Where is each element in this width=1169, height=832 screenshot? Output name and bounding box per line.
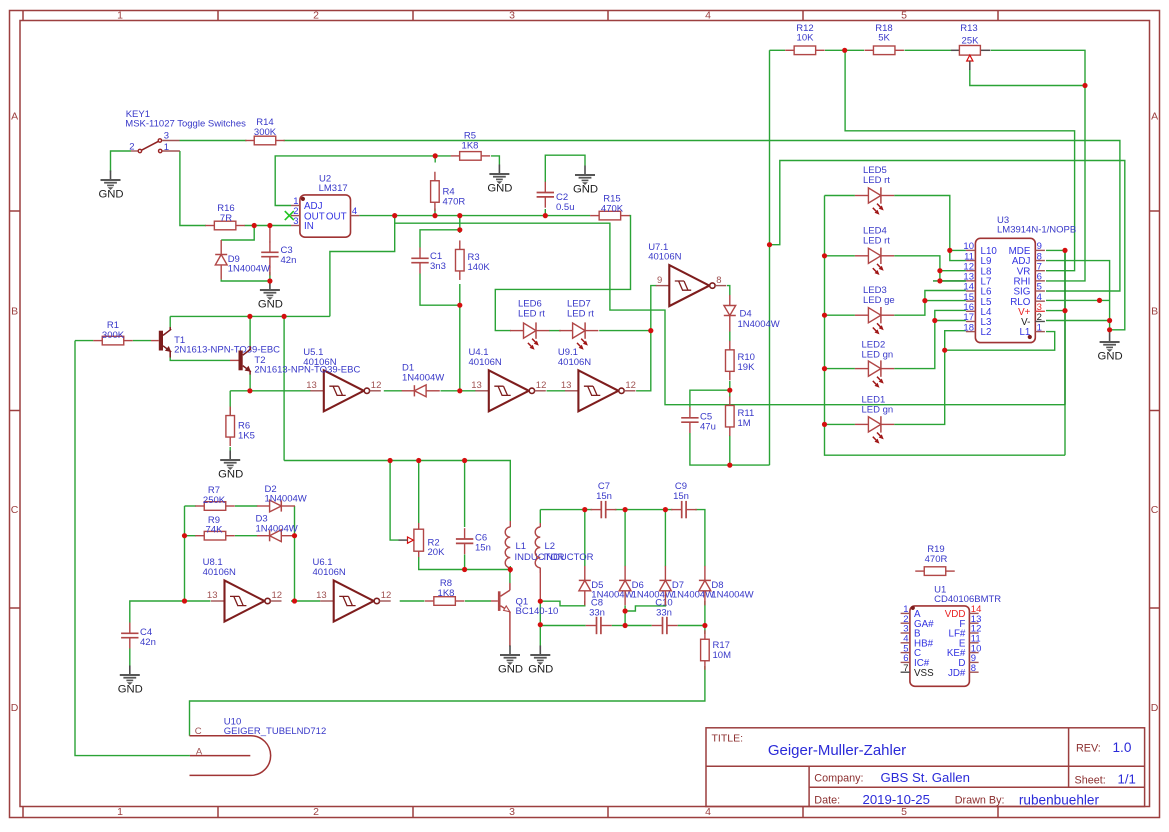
wire (459, 305, 461, 391)
junction (457, 388, 462, 393)
ground (Q1) (498, 646, 523, 676)
wire (491, 156, 499, 165)
U1 pin 13 F (969, 622, 978, 624)
U1 pin 5 C (901, 652, 910, 654)
inverter U4.1 (40106 schmitt gate) (469, 347, 547, 411)
wire overlap emphasis MDE vertical (1064, 250, 1066, 404)
junction (292, 598, 297, 603)
wire (825, 195, 855, 197)
junction (932, 318, 937, 323)
svg-text:LED rt: LED rt (863, 235, 890, 246)
wire L2 top stub (539, 510, 541, 523)
junction (1062, 248, 1067, 253)
svg-text:LED rt: LED rt (863, 175, 890, 186)
wire (330, 223, 395, 316)
junction (462, 458, 467, 463)
svg-text:1K8: 1K8 (438, 588, 455, 599)
U3 pin 7 VR (1035, 270, 1045, 272)
junction (822, 253, 827, 258)
svg-text:5: 5 (901, 806, 907, 818)
wire (549, 330, 561, 332)
U3 pin 14 L6 (966, 290, 976, 292)
svg-text:C: C (195, 726, 202, 737)
wire (509, 570, 511, 584)
LED LED1 (855, 395, 894, 444)
resistor R8 (425, 578, 465, 605)
wire (894, 310, 966, 368)
junction (663, 507, 668, 512)
capacitor C7 (591, 481, 617, 518)
svg-text:2N1613-NPN-TO39-EBC: 2N1613-NPN-TO39-EBC (254, 365, 360, 376)
svg-text:1: 1 (1037, 322, 1042, 333)
svg-text:LED rt: LED rt (567, 308, 594, 319)
wire (170, 357, 230, 360)
svg-text:1/1: 1/1 (1118, 772, 1136, 787)
wire (612, 625, 625, 627)
U1 pin 7 VSS (901, 671, 910, 673)
wire (727, 286, 730, 296)
wire (180, 151, 206, 226)
svg-text:R13: R13 (960, 23, 977, 34)
svg-text:LED rt: LED rt (518, 308, 545, 319)
svg-text:300K: 300K (254, 127, 277, 138)
wire (769, 50, 771, 465)
svg-text:15n: 15n (475, 542, 491, 553)
svg-text:42n: 42n (140, 637, 156, 648)
svg-text:REV:: REV: (1076, 743, 1101, 755)
transistor T1 leads (151, 340, 159, 342)
svg-text:4: 4 (705, 806, 711, 818)
L2 bottom red lead (539, 568, 541, 601)
junction (388, 458, 393, 463)
resistor R4 (431, 172, 466, 212)
wire (1109, 330, 1111, 333)
geiger tube U10 GEIGER_TUBELND712 (190, 716, 327, 775)
wire (599, 330, 651, 332)
svg-text:JD#: JD# (948, 668, 966, 679)
junction (457, 303, 462, 308)
wire (291, 600, 320, 602)
capacitor C1 (411, 248, 446, 274)
transistor T1 (159, 329, 171, 352)
diode D2 (257, 484, 307, 512)
wire (465, 569, 511, 571)
wire (970, 69, 1085, 86)
svg-text:rubenbuehler: rubenbuehler (1019, 792, 1100, 807)
wire (624, 510, 626, 567)
junction (727, 388, 732, 393)
junction (922, 298, 927, 303)
svg-text:250K: 250K (203, 495, 226, 506)
U3 pin 10 L10 (966, 249, 976, 251)
diode D3 (256, 514, 298, 542)
U3 pin 2 V- (1035, 320, 1045, 322)
svg-text:1N4004W: 1N4004W (711, 590, 753, 601)
wire (770, 49, 786, 51)
svg-text:9: 9 (657, 275, 662, 286)
svg-text:13: 13 (207, 590, 218, 601)
svg-text:13: 13 (306, 380, 317, 391)
resistor R1 (93, 320, 133, 345)
svg-text:OUT: OUT (326, 211, 347, 222)
wire (133, 340, 151, 342)
junction (462, 567, 467, 572)
wire (275, 156, 451, 206)
wire (185, 505, 197, 507)
svg-text:L1: L1 (516, 541, 527, 552)
svg-text:1: 1 (117, 806, 123, 818)
wire (1046, 261, 1110, 330)
inverter U8.1 (40106 schmitt gate) (203, 557, 282, 621)
svg-text:40106N: 40106N (469, 357, 502, 368)
svg-text:1.0: 1.0 (1113, 740, 1132, 755)
svg-text:1N4004W: 1N4004W (256, 523, 298, 534)
svg-text:3: 3 (293, 216, 298, 227)
svg-text:15n: 15n (673, 491, 689, 502)
junction (822, 366, 827, 371)
wire (584, 510, 586, 567)
wire (420, 230, 460, 248)
svg-text:GND: GND (573, 183, 598, 195)
capacitor C10 (652, 598, 678, 635)
wire U2 OUT bus (359, 215, 590, 217)
resistor R16 (205, 203, 245, 230)
U3 pin 5 SIG (1035, 290, 1045, 292)
U3 pin 6 RHI (1035, 280, 1045, 282)
resistor R6 (226, 407, 255, 447)
junction (702, 623, 707, 628)
svg-text:1K8: 1K8 (462, 140, 479, 151)
inductor L1 (505, 521, 564, 573)
capacitor C6 (456, 528, 491, 554)
resistor R5 (451, 131, 491, 161)
svg-text:GND: GND (1098, 350, 1123, 362)
wire (420, 274, 460, 306)
svg-text:4: 4 (705, 10, 711, 22)
wire (229, 391, 231, 415)
wire (894, 196, 966, 261)
wire (615, 509, 673, 511)
capacitor C8 (586, 598, 612, 635)
svg-text:C: C (11, 504, 19, 516)
svg-text:12: 12 (272, 590, 283, 601)
svg-text:13: 13 (316, 590, 327, 601)
wire (390, 461, 398, 541)
wire (729, 435, 731, 465)
svg-text:42n: 42n (281, 255, 297, 266)
resistor R10 (726, 341, 756, 381)
svg-text:CD40106BMTR: CD40106BMTR (934, 594, 1001, 605)
svg-text:TITLE:: TITLE: (712, 733, 744, 745)
svg-text:LM317: LM317 (319, 183, 348, 194)
wire (283, 316, 285, 460)
junction (937, 268, 942, 273)
svg-text:INDUCTOR: INDUCTOR (544, 552, 594, 563)
wire (894, 291, 966, 316)
junction (842, 48, 847, 53)
svg-text:2: 2 (129, 142, 134, 153)
resistor R18 (864, 23, 904, 55)
ground (C3/D9) (258, 281, 283, 311)
junction (457, 213, 462, 218)
wire (894, 256, 966, 281)
LED LED2 (855, 340, 894, 388)
junction (508, 567, 513, 572)
wire (235, 535, 258, 537)
svg-text:1N4004W: 1N4004W (738, 319, 780, 330)
wire (825, 255, 855, 257)
wire (935, 320, 966, 322)
C3 pin extensions (269, 228, 271, 243)
diode D4 (724, 295, 780, 332)
svg-text:7R: 7R (220, 213, 232, 224)
diode D8 (699, 566, 754, 605)
svg-text:40106N: 40106N (558, 357, 591, 368)
U3 pin 11 L9 (966, 260, 976, 262)
svg-text:12: 12 (381, 590, 392, 601)
svg-text:470R: 470R (443, 196, 466, 207)
wire R14 to LM3914 SIG pin5 (284, 141, 1120, 292)
transistor Q1 base lead (491, 600, 498, 602)
ground (R5) (487, 165, 512, 195)
svg-text:GEIGER_TUBELND712: GEIGER_TUBELND712 (224, 726, 326, 737)
toggle switch KEY1 (125, 109, 246, 153)
wire (950, 249, 966, 251)
wire (434, 209, 436, 216)
wire (625, 625, 652, 627)
svg-text:5: 5 (901, 10, 907, 22)
junction (292, 533, 297, 538)
wire (1046, 250, 1065, 455)
inverter U5.1 (40106 schmitt gate) (303, 347, 381, 411)
wire (545, 155, 585, 182)
wire (690, 390, 730, 407)
svg-text:2: 2 (313, 806, 319, 818)
resistor R7 (195, 485, 235, 510)
svg-text:IN: IN (304, 221, 314, 232)
U1 pin 9 D (969, 661, 978, 663)
svg-text:LM3914N-1/NOPB: LM3914N-1/NOPB (997, 225, 1076, 236)
svg-text:470K: 470K (601, 203, 624, 214)
transistor T2 leads (230, 359, 239, 361)
svg-text:12: 12 (625, 380, 636, 391)
wire (221, 226, 254, 241)
junction (937, 278, 942, 283)
wire (459, 216, 461, 233)
transistor T2 (239, 349, 251, 372)
svg-text:4: 4 (352, 206, 357, 217)
junction (767, 242, 772, 247)
wire (770, 161, 1125, 330)
svg-text:GND: GND (487, 182, 512, 194)
wire (249, 374, 251, 391)
wire (729, 390, 731, 397)
junction (1097, 298, 1102, 303)
svg-text:3: 3 (164, 131, 169, 142)
svg-text:GND: GND (98, 188, 123, 200)
junction (267, 223, 272, 228)
svg-text:2: 2 (313, 10, 319, 22)
svg-text:A: A (196, 746, 203, 757)
wire (185, 535, 197, 537)
wire (825, 196, 1066, 456)
wire (825, 49, 864, 51)
junction (267, 278, 272, 283)
wire (419, 557, 465, 570)
junction (1107, 318, 1112, 323)
U1 pin 14 VDD (969, 612, 978, 614)
U3 pin 18 L2 (966, 331, 976, 333)
title block (706, 728, 1145, 807)
inverter U9.1 (40106 schmitt gate) (558, 347, 636, 411)
wire (495, 216, 630, 331)
svg-text:15n: 15n (596, 491, 612, 502)
U3 pin 1 L1 (1035, 331, 1045, 333)
wire (729, 332, 731, 342)
wire (229, 447, 231, 451)
U3 pin 13 L7 (966, 280, 976, 282)
wire (825, 368, 855, 370)
wire (111, 151, 132, 172)
U1 pin 6 IC# (901, 661, 910, 663)
ground (R6) (218, 451, 243, 481)
svg-text:LED ge: LED ge (863, 295, 895, 306)
svg-text:47u: 47u (700, 421, 716, 432)
svg-text:GND: GND (498, 663, 523, 675)
wire (170, 315, 330, 317)
svg-text:300K: 300K (102, 330, 125, 341)
wire (729, 381, 731, 390)
ground (C2) (573, 166, 598, 196)
svg-text:40106N: 40106N (203, 567, 236, 578)
U1 pin 4 HB# (901, 642, 910, 644)
wire (624, 606, 626, 626)
LED LED3 (855, 285, 895, 334)
wire (664, 510, 666, 567)
svg-text:8: 8 (716, 275, 721, 286)
U1 pin 11 E (969, 642, 978, 644)
ground (L2) (528, 646, 553, 676)
resistor R19 (915, 544, 955, 575)
junction (623, 608, 628, 613)
U3 pin 4 RLO (1035, 300, 1045, 302)
svg-text:470R: 470R (925, 554, 948, 565)
U1 pin 8 JD# (969, 671, 978, 673)
svg-text:0.5u: 0.5u (556, 202, 575, 213)
svg-text:3: 3 (509, 10, 515, 22)
U1 pin 12 LF# (969, 632, 978, 634)
svg-text:C: C (1151, 504, 1159, 516)
diode D5 (579, 566, 634, 605)
svg-text:VSS: VSS (914, 668, 934, 679)
wire (540, 509, 592, 511)
svg-text:B: B (11, 305, 18, 317)
svg-text:GND: GND (528, 663, 553, 675)
diode D6 (619, 566, 674, 605)
svg-text:13: 13 (471, 380, 482, 391)
U3 pin 12 L8 (966, 270, 976, 272)
svg-text:18: 18 (963, 322, 974, 333)
junction (538, 622, 543, 627)
junction (247, 388, 252, 393)
wire (130, 601, 211, 623)
U1 pin 3 B (901, 632, 910, 634)
svg-text:B: B (1151, 305, 1158, 317)
wire (905, 49, 952, 51)
wire (539, 601, 541, 645)
svg-text:10K: 10K (797, 33, 815, 44)
svg-text:MSK-11027 Toggle Switches: MSK-11027 Toggle Switches (125, 119, 246, 130)
wire (1046, 310, 1065, 312)
diode D1 (402, 363, 445, 397)
resistor R14 (245, 117, 285, 145)
junction (182, 598, 187, 603)
junction (543, 213, 548, 218)
capacitor C9 (671, 481, 697, 518)
capacitor C5 (681, 407, 716, 433)
junction (433, 153, 438, 158)
svg-text:Date:: Date: (814, 794, 840, 806)
diode D9 (215, 240, 270, 279)
junction (822, 313, 827, 318)
svg-text:1N4004W: 1N4004W (265, 494, 307, 505)
junction (252, 223, 257, 228)
svg-text:8: 8 (971, 663, 976, 674)
U1 pin 10 KE# (969, 652, 978, 654)
svg-text:3n3: 3n3 (430, 261, 446, 272)
LED LED7 (559, 299, 598, 350)
wire (925, 300, 966, 302)
U3 pin 17 L3 (966, 320, 976, 322)
junction (947, 248, 952, 253)
LED LED4 (855, 226, 894, 275)
wire (678, 625, 705, 627)
U3 pin 15 L5 (966, 300, 976, 302)
wire (184, 506, 186, 601)
U1 pin 2 GA# (901, 622, 910, 624)
svg-text:Geiger-Muller-Zahler: Geiger-Muller-Zahler (768, 742, 906, 759)
wire (945, 332, 1055, 351)
svg-text:D: D (11, 702, 19, 714)
junction (727, 463, 732, 468)
U3 pin 16 L4 (966, 310, 976, 312)
inductor L2 (535, 523, 593, 573)
U1 pin 1 A (901, 612, 910, 614)
junction (1107, 327, 1112, 332)
wire (540, 601, 585, 606)
wire (464, 461, 466, 528)
wire (894, 331, 966, 425)
wire (294, 506, 296, 601)
wire (636, 286, 656, 391)
svg-text:33n: 33n (656, 607, 672, 618)
junction (942, 348, 947, 353)
svg-text:7: 7 (903, 663, 908, 674)
potentiometer R13 (951, 23, 991, 70)
wire (434, 156, 436, 163)
svg-text:10M: 10M (713, 650, 732, 661)
svg-text:Company:: Company: (814, 773, 863, 785)
wire (180, 140, 247, 142)
svg-text:1N4004W: 1N4004W (402, 372, 444, 383)
resistor R12 (785, 23, 825, 55)
diode D7 (659, 566, 714, 605)
LED LED6 (510, 299, 549, 350)
wire (509, 566, 511, 573)
wire (509, 646, 511, 647)
junction (282, 314, 287, 319)
op-amp regulator U2 LM317 (285, 174, 360, 238)
